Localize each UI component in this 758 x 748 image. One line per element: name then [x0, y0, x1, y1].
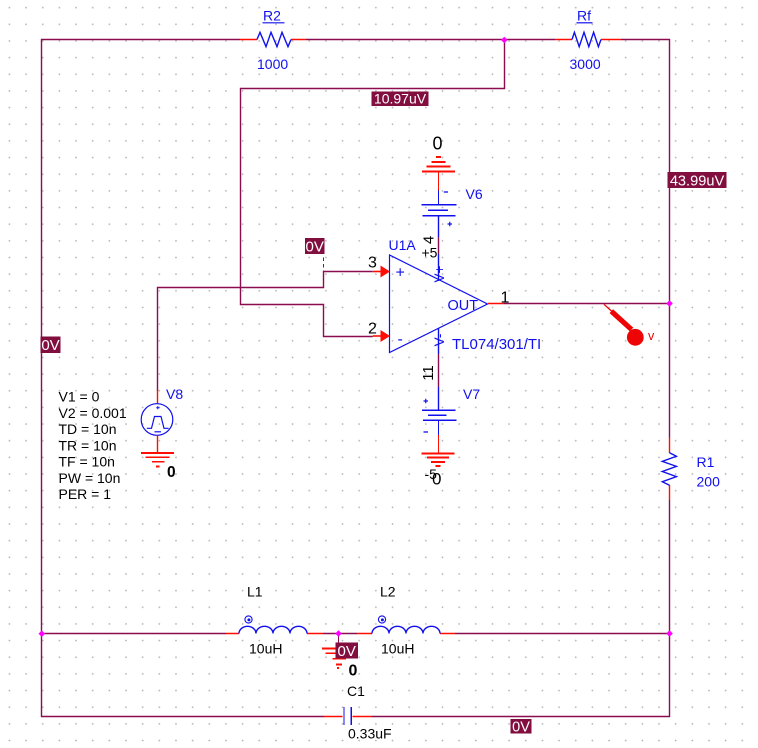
wire op-amp output: [504, 303, 670, 305]
svg-text:10.97uV: 10.97uV: [374, 91, 427, 107]
battery V6: [422, 186, 483, 226]
voltage label 43.99uV: [668, 172, 727, 190]
ground 0 below V8: [141, 453, 176, 481]
svg-text:0.33uF: 0.33uF: [348, 726, 392, 742]
svg-text:+: +: [396, 265, 405, 282]
resistor R1: [662, 438, 720, 501]
svg-text:10uH: 10uH: [381, 641, 414, 657]
node junction left bus-inductor row: [39, 630, 46, 637]
wire inductor row: [41, 633, 670, 635]
svg-text:1: 1: [501, 289, 510, 306]
svg-text:200: 200: [697, 474, 721, 490]
svg-text:0: 0: [433, 134, 443, 154]
wire feedback net to pin 2: [241, 40, 505, 337]
resistor Rf: [555, 8, 621, 73]
voltage label 0V at left bus: [41, 337, 61, 355]
probe marker v: [604, 304, 655, 345]
svg-text:V+: V+: [432, 265, 447, 282]
svg-text:R2: R2: [263, 8, 281, 24]
wire top bus: [41, 39, 670, 41]
pin 1 output red stub: [488, 289, 510, 306]
capacitor C1: [324, 683, 392, 742]
svg-text:C1: C1: [347, 683, 365, 699]
svg-text:V2 = 0.001: V2 = 0.001: [59, 405, 127, 421]
svg-text:10uH: 10uH: [249, 641, 282, 657]
svg-text:V-: V-: [432, 334, 447, 347]
svg-text:V6: V6: [466, 186, 483, 202]
svg-text:4: 4: [421, 236, 438, 244]
op-amp U1A: [389, 237, 542, 353]
node junction output-right bus: [666, 300, 673, 307]
battery V7: [422, 386, 480, 435]
svg-text:0V: 0V: [338, 643, 356, 660]
svg-text:0: 0: [432, 470, 441, 489]
svg-text:TR = 10n: TR = 10n: [59, 437, 117, 453]
svg-text:1000: 1000: [257, 56, 288, 72]
wire right bus: [669, 39, 671, 717]
node junction right bus-inductor row: [666, 630, 673, 637]
svg-text:TL074/301/TI: TL074/301/TI: [452, 336, 541, 353]
V8 parameter text: [59, 389, 127, 503]
node junction inductor midpoint: [335, 630, 342, 637]
svg-text:2: 2: [368, 320, 377, 337]
svg-text:L2: L2: [380, 584, 396, 600]
node junction R2-Rf: [501, 37, 508, 44]
wire V8 to pin 3: [158, 272, 373, 392]
voltage label 0V at bottom bus: [511, 719, 532, 735]
svg-text:L1: L1: [247, 584, 263, 600]
pin 11 supply stem: [420, 329, 439, 411]
svg-text:3: 3: [368, 254, 377, 271]
ground 0 below V7: [422, 435, 455, 489]
svg-text:0V: 0V: [512, 719, 530, 735]
pin 2 red stub and arrow: [368, 320, 390, 342]
svg-text:R1: R1: [697, 454, 715, 470]
svg-text:0V: 0V: [306, 239, 324, 256]
svg-text:43.99uV: 43.99uV: [670, 174, 725, 190]
svg-text:-: -: [398, 331, 403, 348]
svg-text:PW = 10n: PW = 10n: [59, 470, 121, 486]
svg-text:V8: V8: [166, 386, 183, 402]
pulse source V8: [141, 386, 183, 453]
ground 0 at inductor midpoint: [322, 634, 358, 680]
svg-text:TF = 10n: TF = 10n: [59, 454, 115, 470]
svg-text:0: 0: [167, 464, 176, 481]
svg-text:0: 0: [349, 662, 358, 679]
resistor R2: [240, 8, 306, 73]
svg-text:Rf: Rf: [577, 8, 591, 24]
voltage label 0V at pin 3 net: [305, 238, 325, 256]
svg-text:11: 11: [420, 365, 437, 381]
svg-text:0V: 0V: [41, 337, 59, 354]
inductor L2: [357, 584, 455, 657]
voltage label 10.97uV: [372, 91, 429, 107]
wire left bus: [41, 39, 43, 717]
svg-text:PER = 1: PER = 1: [59, 486, 112, 502]
voltage label 0V at inductor midpoint: [336, 643, 359, 661]
wire stub below 0V label at pin 3 net: [323, 258, 325, 272]
svg-text:OUT: OUT: [448, 298, 479, 314]
ground 0 above V6 (inverted): [422, 134, 455, 191]
svg-text:TD = 10n: TD = 10n: [59, 421, 117, 437]
pin 4 supply stem: [421, 216, 439, 281]
pin 3 red stub and arrow: [368, 254, 390, 277]
inductor L1: [226, 584, 323, 657]
svg-text:3000: 3000: [570, 56, 601, 72]
svg-text:+5: +5: [422, 245, 438, 261]
svg-text:V1 = 0: V1 = 0: [59, 389, 100, 405]
svg-text:U1A: U1A: [389, 237, 417, 253]
wire bottom bus: [41, 716, 670, 718]
svg-text:v: v: [648, 329, 655, 343]
svg-text:V7: V7: [463, 386, 480, 402]
